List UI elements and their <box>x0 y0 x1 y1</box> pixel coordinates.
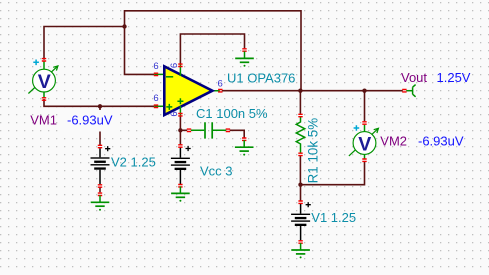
wire <box>125 11 302 91</box>
wire <box>125 27 155 75</box>
svg-text:C1 100n 5%: C1 100n 5% <box>196 106 268 121</box>
wire <box>301 162 365 185</box>
wire <box>180 116 187 130</box>
svg-text:V2 1.25: V2 1.25 <box>111 154 156 169</box>
pin 6 output <box>218 79 223 90</box>
op-amp U1 <box>154 64 223 116</box>
label Vcc 3 <box>200 163 233 178</box>
label C1 100n 5% <box>196 106 268 121</box>
pin 6 non-inverting input <box>153 93 158 104</box>
node D <box>298 89 302 93</box>
voltmeter VM2 <box>349 122 379 162</box>
wire <box>180 34 244 64</box>
svg-text:-6.93uV: -6.93uV <box>418 133 464 148</box>
wire <box>44 27 125 60</box>
ground <box>235 49 254 67</box>
svg-text:6: 6 <box>169 63 180 68</box>
battery Vcc <box>171 145 191 187</box>
ground <box>171 186 190 201</box>
svg-text:Vout: Vout <box>401 70 427 85</box>
svg-text:Vcc 3: Vcc 3 <box>200 163 233 178</box>
label Vout <box>401 70 427 85</box>
wire <box>364 91 366 122</box>
wire <box>300 185 302 201</box>
node B <box>98 104 102 108</box>
svg-text:VM2: VM2 <box>380 133 407 148</box>
label VM2 value <box>418 133 464 148</box>
wire <box>299 91 301 114</box>
ground <box>91 193 110 211</box>
svg-text:-6.93uV: -6.93uV <box>67 113 113 128</box>
wire <box>299 156 301 185</box>
wire <box>99 187 101 192</box>
label V2 1.25 <box>111 154 156 169</box>
svg-text:U1 OPA376: U1 OPA376 <box>227 71 295 86</box>
wire <box>44 99 154 106</box>
resistor R1 <box>296 114 304 155</box>
battery V2 <box>91 145 111 187</box>
battery V1 <box>291 201 311 243</box>
node F <box>298 183 302 187</box>
svg-text:6: 6 <box>153 93 158 104</box>
svg-text:6: 6 <box>169 111 180 116</box>
ground <box>235 138 254 156</box>
node Vout output port <box>402 85 415 97</box>
pin 6 bottom <box>169 111 180 116</box>
label VM1 <box>30 113 57 128</box>
svg-text:6: 6 <box>153 61 158 72</box>
label VM1 value <box>64 110 115 132</box>
label 1.25V <box>437 70 471 85</box>
pin 6 inverting input <box>153 61 158 72</box>
label R1 10k 5% <box>306 118 321 184</box>
svg-text:R1 10k 5%: R1 10k 5% <box>306 118 321 184</box>
node A <box>122 24 126 28</box>
capacitor C1 <box>187 122 230 138</box>
wire <box>179 130 181 144</box>
wire <box>222 90 403 92</box>
svg-text:1.25V: 1.25V <box>437 70 471 85</box>
wire <box>99 106 101 145</box>
ground <box>291 243 310 258</box>
voltmeter VM1 <box>28 59 58 101</box>
node C <box>178 128 182 132</box>
svg-text:VM1: VM1 <box>30 113 57 128</box>
wire <box>230 130 245 138</box>
svg-text:6: 6 <box>218 79 223 90</box>
label U1 OPA376 <box>227 71 295 86</box>
label VM2 <box>380 133 407 148</box>
svg-text:V1 1.25: V1 1.25 <box>311 210 356 225</box>
pin 6 top <box>169 63 180 68</box>
node E <box>362 89 366 93</box>
label V1 1.25 <box>311 210 356 225</box>
